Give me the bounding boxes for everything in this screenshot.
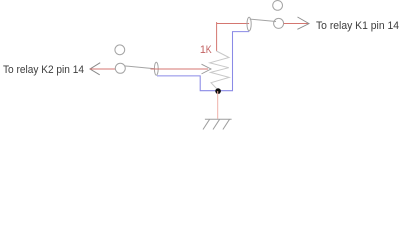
off-page arrow to K2 <box>90 63 100 75</box>
wire junction to ground <box>217 91 219 119</box>
svg-text:To relay K1 pin 14: To relay K1 pin 14 <box>316 20 399 32</box>
potentiometer R1 zigzag body <box>210 51 229 90</box>
potentiometer wiper arrow <box>202 64 212 74</box>
wire blue net (ellipse bottoms to junction) <box>157 32 249 91</box>
junction node <box>215 88 221 94</box>
switch SW2 lever <box>124 66 154 69</box>
switch SW1 lever <box>250 19 276 21</box>
switch SW2 pivot ellipse <box>154 62 158 75</box>
switch SW1 common contact circle <box>274 18 284 28</box>
svg-text:To relay K2 pin 14: To relay K2 pin 14 <box>3 64 84 76</box>
wire resistor top lead <box>216 22 218 51</box>
wire left terminal to switch common <box>90 68 116 70</box>
wire pot top to relay K1 switch <box>217 23 250 25</box>
wire switch SW2 to potentiometer wiper <box>151 68 209 70</box>
switch SW1 pivot ellipse <box>247 17 251 31</box>
ground symbol <box>203 119 232 129</box>
wire switch SW1 to right terminal <box>284 23 309 25</box>
svg-text:K: K <box>206 44 213 56</box>
switch SW2 common contact circle <box>115 63 125 73</box>
switch SW1 upper contact circle <box>273 1 283 11</box>
switch SW2 upper contact circle <box>115 45 125 55</box>
off-page arrow to K1 <box>297 17 309 29</box>
